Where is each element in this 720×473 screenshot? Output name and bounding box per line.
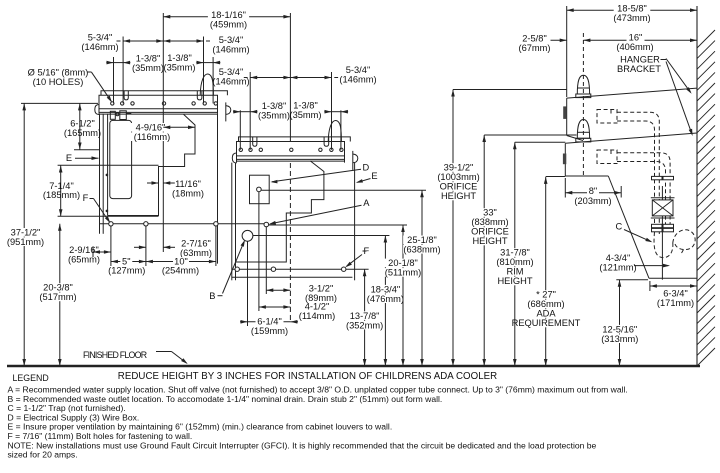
svg-text:HEIGHT: HEIGHT xyxy=(441,191,476,201)
svg-text:18-3/4": 18-3/4" xyxy=(371,284,401,294)
waste outlet B xyxy=(242,230,253,241)
svg-text:(18mm): (18mm) xyxy=(172,188,204,198)
upper waste piping (dashed) xyxy=(617,112,659,230)
svg-text:(459mm): (459mm) xyxy=(210,20,247,30)
right bolt hole row line xyxy=(232,268,369,270)
adult bubbler dome xyxy=(577,75,589,94)
left bar right ear xyxy=(225,102,227,121)
dim 33 orifice height xyxy=(483,135,485,366)
right bolt holes F xyxy=(235,267,239,271)
lower waste strainer (dashed) xyxy=(597,150,617,164)
pipe union fittings xyxy=(652,176,663,179)
dim 31-7/8 rim height xyxy=(514,142,516,366)
7-1/4 extension lines xyxy=(58,164,159,166)
right cabinet inner cutout profile xyxy=(236,161,324,262)
svg-text:(352mm): (352mm) xyxy=(346,320,383,330)
svg-text:(35mm): (35mm) xyxy=(289,110,321,120)
side view adult front edge xyxy=(566,98,568,135)
trap centerline extension to 4-3/4 dim xyxy=(661,186,663,280)
left bar mounting holes row xyxy=(111,102,114,105)
right unit top basin bar xyxy=(237,137,351,163)
svg-text:(171mm): (171mm) xyxy=(657,298,694,308)
svg-text:12-5/16": 12-5/16" xyxy=(602,324,637,334)
A hole drop line to 3-1/2 dim xyxy=(265,227,267,294)
bolt hole drop lines xyxy=(110,226,112,266)
dim 39-1/2 orifice height xyxy=(452,90,454,367)
dim 5-3/4 left of left centerline xyxy=(123,40,163,42)
left bubbler valve fittings xyxy=(110,111,131,120)
right 1-3/8 extension ticks xyxy=(239,110,241,150)
svg-text:(1003mm): (1003mm) xyxy=(437,172,479,182)
wall face line xyxy=(696,6,698,366)
D hole drop line to 4-1/2 dim xyxy=(258,192,260,311)
side view adult top surface xyxy=(567,88,697,98)
electrical box hole xyxy=(257,187,262,192)
water supply hole A xyxy=(264,222,269,227)
svg-text:C: C xyxy=(615,222,622,232)
svg-text:(67mm): (67mm) xyxy=(518,43,550,53)
upper waste strainer (dashed) xyxy=(597,110,695,258)
dim 27 ada requirement xyxy=(545,177,547,366)
left bolt holes F xyxy=(109,222,113,226)
lower diagonal apron edge xyxy=(608,176,649,278)
left cabinet right edge xyxy=(217,114,219,264)
child bubbler centerline dashed xyxy=(582,143,584,176)
dim 6-1/2 (165mm) xyxy=(79,103,81,149)
extension line from D hole to 25-1/8 dim xyxy=(261,189,426,191)
child bottom edge xyxy=(565,175,608,177)
svg-text:(114mm): (114mm) xyxy=(299,311,336,321)
svg-text:(146mm): (146mm) xyxy=(212,45,249,55)
svg-text:(686mm): (686mm) xyxy=(527,299,564,309)
svg-text:(951mm): (951mm) xyxy=(7,237,44,247)
svg-text:(146mm): (146mm) xyxy=(81,42,118,52)
dim 25-1/8" xyxy=(421,190,423,366)
svg-text:(406mm): (406mm) xyxy=(616,42,653,52)
left bubbler guard dome xyxy=(200,74,213,95)
svg-text:sized for 20 amps.: sized for 20 amps. xyxy=(8,450,78,460)
svg-text:E: E xyxy=(371,171,377,181)
svg-text:(159mm): (159mm) xyxy=(251,326,288,336)
svg-text:(127mm): (127mm) xyxy=(108,266,145,276)
left flange rivets xyxy=(106,174,108,176)
side view child front edge xyxy=(564,143,566,176)
dim 5 inch (127mm) xyxy=(111,261,146,263)
dim 2-7/16 (63mm) xyxy=(134,246,146,248)
left bar slot notches xyxy=(124,91,202,100)
svg-text:(116mm): (116mm) xyxy=(134,132,171,142)
dim 11/16 (18mm) xyxy=(147,182,159,184)
side view child top surface xyxy=(565,133,697,143)
svg-text:(146mm): (146mm) xyxy=(212,77,249,87)
svg-text:(810mm): (810mm) xyxy=(496,257,533,267)
rim height extension line xyxy=(515,141,566,143)
svg-text:(35mm): (35mm) xyxy=(163,63,195,73)
dim 20-3/8 (517mm) floor to bolt row xyxy=(59,224,61,366)
svg-text:RIM: RIM xyxy=(506,267,523,277)
left 1-3/8 dim lines and arrows xyxy=(114,62,124,64)
svg-text:HEIGHT: HEIGHT xyxy=(497,276,532,286)
svg-text:(511mm): (511mm) xyxy=(385,268,422,278)
svg-text:LEGEND: LEGEND xyxy=(13,373,49,383)
lower waste piping (dashed) xyxy=(617,153,670,228)
left unit top basin bar xyxy=(99,91,227,114)
dim 4-3/4 (121mm) xyxy=(634,265,668,267)
svg-text:33": 33" xyxy=(483,208,497,218)
svg-text:(476mm): (476mm) xyxy=(367,294,404,304)
right bar slot notches xyxy=(253,137,329,146)
extension line from A hole to 20-1/8 dim xyxy=(269,224,407,226)
svg-text:(146mm): (146mm) xyxy=(339,75,376,85)
dim 6-3/4 (171mm) xyxy=(650,285,697,287)
svg-text:REQUIREMENT: REQUIREMENT xyxy=(512,318,581,328)
left bar left ear xyxy=(95,105,99,115)
svg-text:20-1/8": 20-1/8" xyxy=(388,258,418,268)
dim 8 inch (203mm) xyxy=(565,192,621,194)
trap bend (dashed) xyxy=(654,232,673,258)
finished floor line xyxy=(7,365,700,367)
electrical box D xyxy=(250,175,270,204)
svg-text:(35mm): (35mm) xyxy=(132,63,164,73)
left 5-3/4 extension ticks xyxy=(122,37,124,104)
right cabinet bottom edge xyxy=(232,276,353,278)
svg-text:(638mm): (638mm) xyxy=(403,245,440,255)
dim 13-7/8" xyxy=(364,269,366,366)
6-1/2 lower extension line xyxy=(74,149,100,151)
hole row extension line to 37-1/2 and 6-1/2 dims xyxy=(21,102,98,104)
right bar right ear xyxy=(352,151,354,170)
union valve body xyxy=(652,200,673,216)
svg-text:BRACKET: BRACKET xyxy=(617,64,661,74)
dim 2-5/8 (67mm) xyxy=(551,39,567,41)
svg-text:* 27": * 27" xyxy=(536,290,556,300)
adult underside line xyxy=(567,136,583,141)
B outlet drop line to 6-1/4 dim xyxy=(247,241,249,326)
svg-text:13-7/8": 13-7/8" xyxy=(350,311,380,321)
dim 2-9/16 (65mm) xyxy=(93,251,111,253)
svg-text:F: F xyxy=(83,193,89,203)
svg-text:ORIFICE: ORIFICE xyxy=(440,182,478,192)
svg-text:(165mm): (165mm) xyxy=(64,128,101,138)
svg-text:(185mm): (185mm) xyxy=(43,190,80,200)
svg-text:31-7/8": 31-7/8" xyxy=(500,248,530,258)
svg-text:B: B xyxy=(209,291,215,301)
svg-text:(838mm): (838mm) xyxy=(471,217,508,227)
wall hatching xyxy=(697,30,715,366)
adult bubbler centerline dashed xyxy=(582,33,584,140)
left cabinet left edge (double) xyxy=(99,114,101,234)
child bubbler dome xyxy=(577,120,589,139)
left centerline extension line xyxy=(162,13,164,252)
svg-text:25-1/8": 25-1/8" xyxy=(407,235,437,245)
right 5-3/4 extension ticks xyxy=(249,72,251,150)
svg-text:(121mm): (121mm) xyxy=(599,262,636,272)
svg-text:(254mm): (254mm) xyxy=(162,266,199,276)
right bar mounting holes row xyxy=(239,148,242,151)
svg-text:D: D xyxy=(362,163,369,173)
orifice height extension line lower xyxy=(484,134,576,136)
dim 5-3/4 pair (right unit) line xyxy=(250,77,290,79)
dim 18-5/8 (473mm) wall to front xyxy=(567,9,697,11)
extension line from B outlet to 18-3/4 dim xyxy=(253,235,389,237)
dim 3-1/2 (89mm) xyxy=(266,289,290,291)
left bolt hole row line xyxy=(100,223,268,225)
dim 12-5/16 (313mm) xyxy=(619,280,621,366)
dim 18-3/4" xyxy=(384,236,386,367)
dim 20-1/8" xyxy=(402,225,404,366)
svg-text:(65mm): (65mm) xyxy=(68,254,100,264)
svg-text:(313mm): (313mm) xyxy=(601,334,638,344)
svg-text:(473mm): (473mm) xyxy=(613,13,650,23)
left 1-3/8 extension ticks xyxy=(113,57,115,103)
svg-text:REDUCE HEIGHT BY 3 INCHES FOR: REDUCE HEIGHT BY 3 INCHES FOR INSTALLATI… xyxy=(118,371,497,382)
dim 16 (406mm) xyxy=(583,39,697,41)
child front tab xyxy=(563,154,566,165)
right 1-3/8 dim lines and arrows xyxy=(240,111,250,113)
dim 4-9/16 (116mm) xyxy=(130,123,172,132)
svg-text:FINISHED FLOOR: FINISHED FLOOR xyxy=(83,350,147,360)
trap outlet loop to wall (dashed) xyxy=(673,230,695,250)
right bar left ear xyxy=(232,153,236,163)
right bubbler guard dome xyxy=(328,120,341,141)
dim 4-1/2 (114mm) xyxy=(259,306,291,308)
dim 18-1/16 (459mm) between unit centerlines xyxy=(163,16,290,18)
svg-text:(10 HOLES): (10 HOLES) xyxy=(33,77,84,87)
dim 10 inch (254mm) xyxy=(146,261,216,263)
dim 37-1/2 (951mm) floor to hole row xyxy=(23,103,25,366)
right cabinet right edge xyxy=(354,163,356,281)
svg-text:A: A xyxy=(363,198,370,208)
12-5/16 extension line xyxy=(616,279,648,281)
svg-text:(203mm): (203mm) xyxy=(574,196,611,206)
18-5/8 extension lines xyxy=(566,6,568,97)
dim 7-1/4 (185mm) xyxy=(60,166,62,217)
svg-text:ADA: ADA xyxy=(536,309,556,319)
svg-text:HEIGHT: HEIGHT xyxy=(472,236,507,246)
chassis bottom rear line xyxy=(649,277,697,279)
right unit centerline (dashed) xyxy=(289,163,291,322)
svg-text:E: E xyxy=(66,153,72,163)
svg-text:(35mm): (35mm) xyxy=(258,111,290,121)
dim 6-1/4 (159mm) xyxy=(240,321,248,323)
ada requirement extension line xyxy=(546,176,566,178)
right cabinet left edge (double) xyxy=(231,163,233,281)
left chiller tank xyxy=(110,120,132,198)
left cabinet inner cutout profile xyxy=(108,114,195,216)
orifice height extension line upper xyxy=(453,89,567,91)
svg-text:8": 8" xyxy=(589,186,597,196)
svg-text:ORIFICE: ORIFICE xyxy=(471,227,509,237)
adult front tab xyxy=(563,106,567,119)
right centerline extension line (above bar) xyxy=(289,13,291,142)
svg-text:(517mm): (517mm) xyxy=(39,292,76,302)
svg-text:39-1/2": 39-1/2" xyxy=(444,163,474,173)
svg-text:NOTE: New installations must u: NOTE: New installations must use Ground … xyxy=(8,440,597,450)
